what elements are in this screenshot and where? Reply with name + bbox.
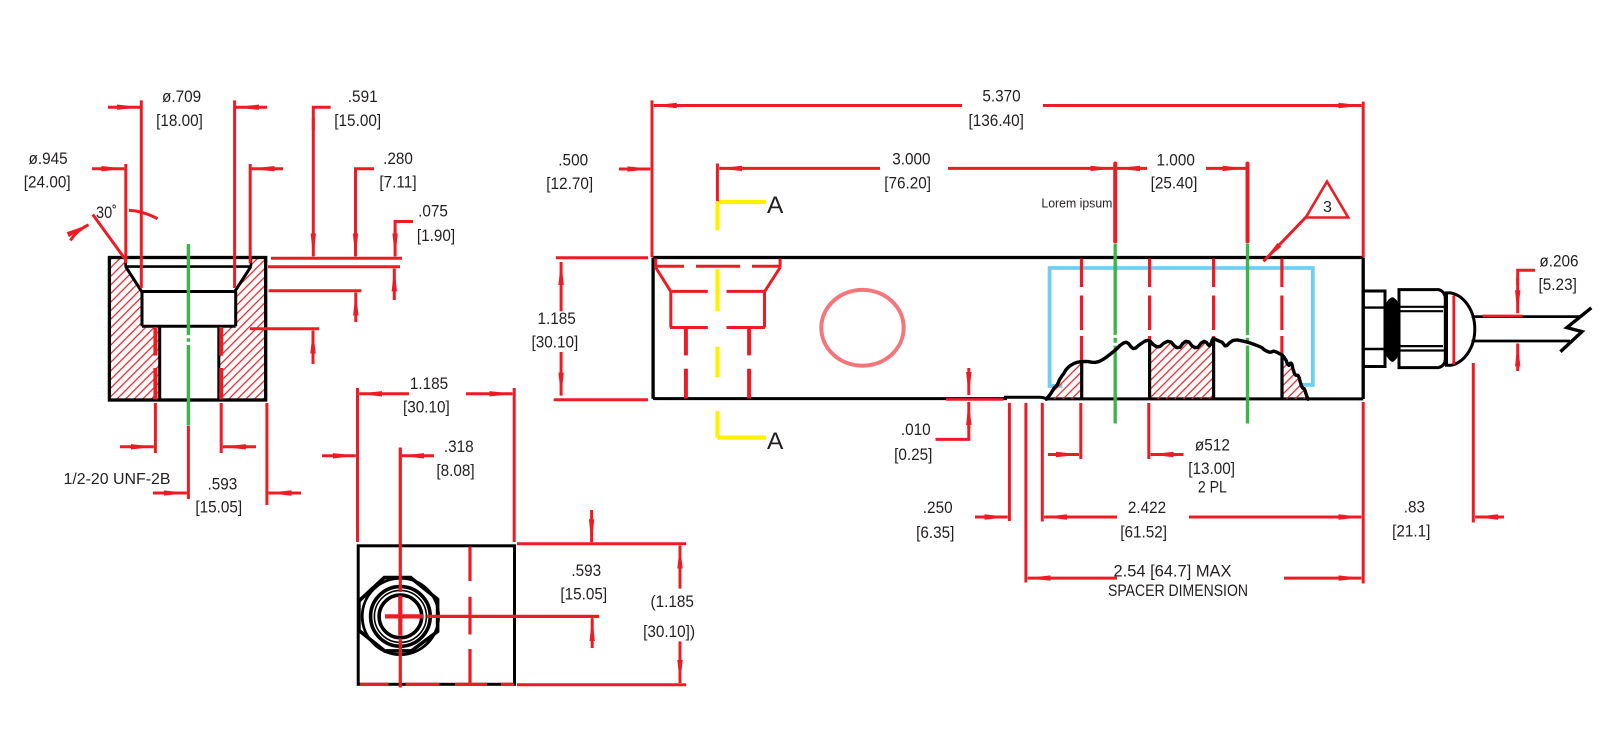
- svg-text:SPACER DIMENSION: SPACER DIMENSION: [1108, 581, 1248, 600]
- svg-text:[21.1]: [21.1]: [1392, 522, 1430, 541]
- svg-text:[0.25]: [0.25]: [894, 445, 932, 464]
- ext line hole1 center (red above yellow): [716, 164, 719, 202]
- svg-text:(1.185: (1.185: [651, 592, 694, 611]
- pocket shoulder line: [142, 325, 236, 328]
- svg-text:.83: .83: [1404, 497, 1425, 516]
- ext line hole2 right below: [1147, 403, 1150, 459]
- svg-text:Lorem ipsum: Lorem ipsum: [1041, 197, 1112, 211]
- dome cap: [1447, 293, 1475, 365]
- center cross vertical: [398, 596, 402, 636]
- dim 3.000 line right: [948, 167, 1113, 170]
- svg-text:[15.05]: [15.05]: [560, 585, 607, 604]
- ext line hole3 center: [1246, 164, 1250, 242]
- svg-text:[136.40]: [136.40]: [969, 111, 1024, 130]
- dim 0.591 bracket and down arrow: [313, 107, 330, 130]
- dim 0.010 up arrow with bracket: [967, 402, 970, 429]
- thread hidden line left: [153, 327, 157, 400]
- hidden line vertical in square: [468, 547, 471, 685]
- svg-text:5.370: 5.370: [982, 86, 1020, 105]
- thread extension below left: [154, 403, 157, 453]
- svg-text:[61.52]: [61.52]: [1120, 523, 1167, 542]
- dim 1.185 line down arrow: [560, 352, 563, 396]
- dim phi.206 bracket + down arrow: [1518, 270, 1535, 285]
- body outline top: [653, 256, 1363, 259]
- svg-text:[15.05]: [15.05]: [195, 498, 242, 517]
- svg-text:[24.00]: [24.00]: [24, 172, 71, 191]
- dim 0.318 arrows: [322, 454, 356, 457]
- svg-text:[7.11]: [7.11]: [379, 172, 416, 191]
- thread major circle: [371, 587, 431, 647]
- face extension line right 1 (top face): [271, 257, 402, 260]
- svg-text:[15.00]: [15.00]: [334, 111, 381, 130]
- body bottom with 0.010 step: [653, 397, 1363, 399]
- svg-text:ø512: ø512: [1195, 435, 1230, 454]
- hidden line hole3 right: [1280, 259, 1283, 355]
- svg-text:[25.40]: [25.40]: [1151, 174, 1198, 193]
- section hole3 right edge: [1280, 355, 1283, 399]
- dim ext line 0.709 left: [140, 100, 143, 288]
- svg-text:.010: .010: [901, 420, 931, 439]
- dim 1.185 line up arrow: [560, 262, 563, 311]
- ext line spacer max left: [1024, 403, 1027, 583]
- 30deg arc with arrow: [70, 225, 88, 241]
- hatch patch 1: [1047, 362, 1082, 399]
- svg-text:2.422: 2.422: [1128, 498, 1166, 517]
- svg-text:.280: .280: [383, 149, 413, 168]
- cyan spacer boundary box: [1050, 268, 1313, 386]
- svg-text:2.54 [64.7] MAX: 2.54 [64.7] MAX: [1114, 562, 1232, 581]
- dim 2.54 line left: [1028, 577, 1117, 580]
- section hole2 left edge: [1080, 362, 1083, 399]
- cable bottom line: [1472, 340, 1571, 343]
- svg-text:1/2-20 UNF-2B: 1/2-20 UNF-2B: [64, 471, 171, 488]
- ext line body right top: [1362, 102, 1365, 257]
- 30deg chamfer extension leader: [93, 215, 126, 261]
- cable break zigzag: [1560, 308, 1591, 352]
- vertical centerline view B: [399, 448, 402, 688]
- dim 0.010 down arrow: [967, 368, 970, 395]
- svg-text:1.000: 1.000: [1157, 151, 1195, 170]
- hidden boss taper left: [656, 268, 671, 292]
- dim arrow 0.945 left: [92, 167, 124, 170]
- svg-text:A: A: [767, 428, 784, 455]
- chamfer taper right: [235, 267, 251, 292]
- dim 0.250 left arrow: [975, 516, 1008, 519]
- hidden line over bottom edge: [360, 683, 514, 686]
- svg-text:1.185: 1.185: [410, 374, 448, 393]
- o-ring (compressed): [1385, 298, 1400, 361]
- dim 2.54 line right: [1284, 577, 1361, 580]
- ext line pocket start: [1041, 403, 1044, 522]
- hidden boss shoulder line: [670, 326, 765, 329]
- ext line body right bottom: [1362, 402, 1365, 584]
- svg-text:[30.10]): [30.10]): [643, 622, 695, 641]
- dim phi.206 up arrow: [1516, 344, 1519, 371]
- boss outline: [109, 258, 265, 401]
- dim 5.370 line left: [654, 104, 962, 107]
- svg-text:A: A: [767, 192, 784, 219]
- yellow stub bottom: [718, 436, 767, 440]
- chamfer circle: [362, 578, 438, 654]
- dim ext line 0.945 right: [249, 164, 252, 263]
- gland neck: [1363, 291, 1385, 367]
- svg-text:3.000: 3.000: [892, 149, 930, 168]
- svg-text:30˚: 30˚: [96, 203, 117, 222]
- red overlay on cable top: [1483, 315, 1523, 318]
- dim (1.185) line with arrows: [679, 546, 682, 589]
- recess side walls: [126, 258, 251, 267]
- svg-text:[13.00]: [13.00]: [1188, 459, 1235, 478]
- svg-text:.593: .593: [571, 561, 601, 580]
- ext line square bottom right: [517, 683, 686, 686]
- svg-text:.318: .318: [444, 437, 474, 456]
- dim 0.500 left arrow: [619, 168, 650, 171]
- flag leader: [1264, 217, 1307, 262]
- dim 1.185 left ext top: [556, 256, 648, 259]
- yellow stub top: [718, 200, 767, 204]
- dim ext 1.185 left: [356, 388, 359, 542]
- hidden boss recess side verticals: [656, 259, 780, 268]
- flag triangle 3: [1306, 182, 1348, 218]
- square outline: [358, 546, 514, 685]
- dim 1.185 left ext bottom: [554, 398, 648, 401]
- ext line square top right: [517, 542, 686, 545]
- gland nut body: [1399, 290, 1445, 368]
- dim 0.280 bracket and down arrow: [356, 169, 375, 190]
- svg-text:[30.10]: [30.10]: [532, 333, 579, 352]
- hidden boss recess line: [657, 265, 780, 268]
- pocket top line: [140, 290, 236, 293]
- dim arrow 0.945 right: [252, 167, 283, 170]
- svg-text:2 PL: 2 PL: [1198, 478, 1227, 497]
- face extension line right 3 (pocket face): [269, 289, 362, 292]
- pocket walls: [142, 292, 236, 327]
- dim arrow 0.709 left: [108, 106, 140, 109]
- svg-text:1.185: 1.185: [537, 309, 575, 328]
- svg-text:.500: .500: [558, 151, 588, 170]
- gland neck chamfer lines: [1363, 308, 1385, 349]
- cable top line: [1472, 315, 1581, 318]
- dim arrow 0.709 right: [236, 106, 267, 109]
- green centerline hole 2: [1113, 244, 1116, 424]
- thread hidden line right: [219, 327, 223, 400]
- svg-text:[30.10]: [30.10]: [403, 398, 450, 417]
- yellow section line A-A: [715, 202, 719, 438]
- dim phi512 left arrow: [1048, 453, 1079, 456]
- svg-text:ø.206: ø.206: [1539, 252, 1578, 271]
- 30deg arc right piece: [129, 210, 158, 219]
- body left edge: [651, 258, 654, 399]
- dim ext line 0.945 left: [124, 164, 127, 263]
- hidden line hole3 left: [1212, 259, 1215, 339]
- dim 0.593 arrows row (view A): [153, 492, 187, 495]
- hidden line hole2 right: [1148, 259, 1151, 341]
- svg-text:[8.08]: [8.08]: [436, 461, 474, 480]
- dim 0.593 up arrow: [591, 618, 594, 648]
- hidden hole wall left: [684, 328, 688, 398]
- face extension line right 4 (shoulder): [250, 327, 319, 330]
- green centerline hole 3: [1246, 244, 1249, 424]
- svg-text:[6.35]: [6.35]: [916, 523, 954, 542]
- center cross horizontal: [385, 614, 423, 618]
- red centerline extension below view A: [187, 426, 190, 500]
- thread pitch circle: [374, 590, 426, 642]
- svg-text:[12.70]: [12.70]: [546, 174, 593, 193]
- hidden boss taper right: [765, 268, 780, 292]
- ext line body left top: [651, 100, 654, 257]
- section hole2 right edge: [1148, 341, 1151, 399]
- svg-text:3: 3: [1323, 199, 1332, 216]
- dim 0.075 bracket and down arrow: [395, 222, 413, 241]
- dim 2.422 line right: [1189, 516, 1361, 519]
- svg-text:[76.20]: [76.20]: [884, 174, 931, 193]
- horizontal centerline view B: [427, 615, 600, 618]
- svg-text:.075: .075: [418, 202, 448, 221]
- dim 0.593 down arrow: [590, 510, 593, 542]
- hex nut outline: [359, 578, 438, 651]
- svg-text:[18.00]: [18.00]: [156, 111, 203, 130]
- gland nut chamfer lines: [1399, 307, 1446, 351]
- svg-text:[5.23]: [5.23]: [1539, 275, 1577, 294]
- hatch right wall: [219, 258, 266, 401]
- dim ext line 0.709 right: [233, 100, 236, 288]
- svg-text:[1.90]: [1.90]: [417, 226, 455, 245]
- hidden hole wall right: [747, 328, 751, 398]
- hidden line hole2 left: [1080, 259, 1083, 362]
- dim 1.000 left arrow: [1117, 167, 1147, 170]
- ext line block right edge below: [265, 403, 268, 505]
- svg-text:.593: .593: [208, 475, 238, 494]
- dim 3.000 line left (with shared 0.500 arrow): [719, 167, 880, 170]
- svg-text:.591: .591: [348, 87, 378, 106]
- dim 0.83 right arrow: [1475, 516, 1504, 519]
- dim phi512 right arrow: [1151, 453, 1184, 456]
- dim 5.370 line right: [1043, 104, 1362, 107]
- section hole3 left edge: [1212, 339, 1215, 399]
- hatch patch 2: [1150, 339, 1214, 399]
- dim 0.075 up arrow: [393, 269, 396, 300]
- through-hole pink ellipse: [821, 290, 903, 366]
- ext line hole2 center: [1113, 164, 1117, 242]
- red line on dome: [1452, 296, 1455, 365]
- svg-text:ø.709: ø.709: [162, 87, 201, 106]
- thread callout arrows row: [120, 445, 154, 448]
- face extension line right 2 (recess): [268, 265, 400, 268]
- tapped hole walls: [160, 326, 219, 400]
- dim ext 1.185 right: [513, 388, 516, 542]
- dim 1.000 line right: [1206, 167, 1246, 170]
- hatch left wall: [109, 258, 159, 401]
- dim 1.185 arrows (inside, outward): [359, 392, 409, 395]
- body right edge: [1362, 258, 1365, 400]
- dim 0.010 red overlay on bottom face: [946, 398, 1004, 401]
- svg-text:ø.945: ø.945: [29, 149, 68, 168]
- hidden boss pocket top line: [671, 290, 765, 293]
- chamfer taper left: [126, 267, 142, 292]
- thread minor circle: [379, 595, 422, 638]
- dim 0.591 up arrow: [312, 331, 315, 364]
- broken-out section wavy line: [1046, 339, 1308, 400]
- thread extension below right: [220, 403, 223, 453]
- hidden boss pocket walls: [671, 291, 765, 327]
- hatch patch 3: [1282, 355, 1308, 399]
- recess bottom line: [125, 265, 251, 268]
- svg-text:.250: .250: [923, 498, 953, 517]
- ext line dome edge below: [1472, 363, 1475, 523]
- ext line step (0.250 left): [1008, 403, 1011, 521]
- dim 0.280 up arrow: [354, 293, 357, 322]
- ext line hole2 left below: [1079, 403, 1082, 459]
- dim 2.422 line left: [1044, 516, 1117, 519]
- green centerline view A: [187, 244, 190, 425]
